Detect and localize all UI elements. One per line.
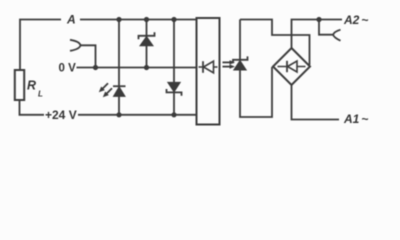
svg-text:R: R — [27, 79, 36, 93]
svg-text:A1: A1 — [343, 112, 360, 126]
diode V6 inside bridge — [278, 61, 306, 72]
node: 0V / branch 2 — [144, 65, 149, 70]
LED V2 (branch 1) — [99, 83, 126, 97]
svg-text:A: A — [66, 13, 76, 27]
wire: A label to input block — [80, 19, 197, 21]
wire: resistor bottom to +24V label — [20, 100, 45, 115]
wire: photodiode branch top, over to bridge right vertex — [240, 20, 310, 66]
wire: branch 1 vertical (LED branch) — [118, 20, 120, 115]
wire: branch 3 vertical (diode branch) — [173, 20, 175, 115]
node: 0V / socket stem — [93, 65, 98, 70]
optocoupler input block U1 — [197, 18, 220, 125]
node: top wire / branch 3 — [171, 17, 176, 22]
node: +24V / branch 3 — [171, 112, 176, 117]
node: +24V / branch 1 — [116, 112, 121, 117]
optocoupler light arrows — [223, 60, 236, 69]
wire: socket K1 stem down to 0V — [81, 45, 96, 67]
zener diode V1 (top, branch 2) — [139, 32, 155, 46]
wire: photodiode vertical top lead — [239, 20, 241, 61]
node: top wire / branch 2 — [144, 17, 149, 22]
connector socket K2 (A2 plug) — [333, 30, 341, 41]
photo zener diode V5 — [233, 56, 248, 70]
svg-text:~: ~ — [362, 13, 369, 27]
wire: bridge top to A2 terminal — [292, 20, 343, 49]
svg-text:L: L — [38, 90, 43, 99]
connector socket K1 (input plug) — [70, 40, 81, 51]
bridge rectifier B1 (diamond) — [273, 48, 310, 85]
node: top wire / branch 1 — [116, 17, 121, 22]
wire: bridge bottom to A1 terminal — [292, 85, 340, 120]
resistor RL box — [15, 70, 24, 100]
svg-text:A2: A2 — [343, 13, 360, 27]
wire: top-left corner to A label — [20, 20, 61, 71]
node: A2 wire / socket branch — [316, 17, 321, 22]
LED arrow 2 — [107, 88, 113, 94]
wire: branch 2 vertical (zener branch) — [146, 20, 148, 68]
optocoupler LED V4 (inside block) — [199, 61, 218, 73]
junction dots — [93, 17, 322, 118]
wire: A2 socket branch — [319, 20, 333, 35]
wire: photodiode bottom lead, U to bridge left vertex — [240, 67, 272, 117]
svg-text:+24 V: +24 V — [45, 108, 77, 122]
svg-text:~: ~ — [362, 112, 369, 126]
zener diode V3 (branch 3, pointing down) — [167, 82, 182, 95]
LED arrow 1 — [103, 83, 109, 89]
wire: +24V line — [78, 114, 197, 116]
wire: 0V line — [77, 67, 197, 69]
svg-text:0 V: 0 V — [59, 63, 77, 75]
